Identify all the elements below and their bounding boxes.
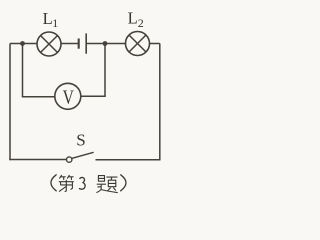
第 body	[59, 180, 73, 191]
switch S: pivot circle	[67, 157, 72, 162]
svg-text:V: V	[63, 86, 74, 109]
voltmeter U1	[55, 83, 81, 109]
wire bottom-right (switch to corner)	[96, 159, 161, 161]
junction node B (after battery, to voltmeter branch)	[103, 41, 108, 46]
wire L1 to battery	[61, 43, 79, 45]
svg-text:2: 2	[138, 16, 144, 30]
题 right (页)	[107, 177, 117, 190]
第 bamboo radical	[60, 175, 74, 179]
open paren	[51, 175, 56, 191]
label L1	[43, 9, 59, 30]
lamp L2	[126, 32, 150, 56]
battery cell: long (positive) plate	[85, 33, 87, 53]
wire right vertical	[159, 44, 161, 160]
close paren	[121, 175, 126, 191]
switch S: blade	[72, 152, 94, 158]
digit 3	[79, 177, 85, 189]
label L2	[128, 8, 144, 30]
svg-text:1: 1	[52, 16, 58, 30]
wire voltmeter branch left horizontal	[22, 96, 55, 98]
svg-text:S: S	[76, 131, 85, 150]
wire bottom-left (to switch)	[9, 159, 66, 161]
lamp L1	[37, 32, 61, 56]
svg-text:L: L	[128, 8, 138, 27]
svg-text:L: L	[43, 9, 53, 28]
caption (第 3 题)	[51, 175, 126, 193]
题 left (日 + 疋)	[97, 176, 118, 193]
wire voltmeter branch right horizontal	[81, 95, 106, 97]
battery cell: short (negative) plate	[78, 39, 80, 49]
wire voltmeter branch right vertical	[104, 44, 106, 97]
wire L2 to top-right corner	[150, 43, 160, 45]
wire left vertical	[9, 44, 11, 161]
wire top-left (corner to lamp L1)	[10, 43, 37, 45]
label S	[76, 131, 85, 150]
wire voltmeter branch left vertical	[22, 44, 24, 97]
junction node A (top wire to voltmeter branch)	[20, 41, 25, 46]
wire battery to lamp L2	[86, 43, 125, 45]
